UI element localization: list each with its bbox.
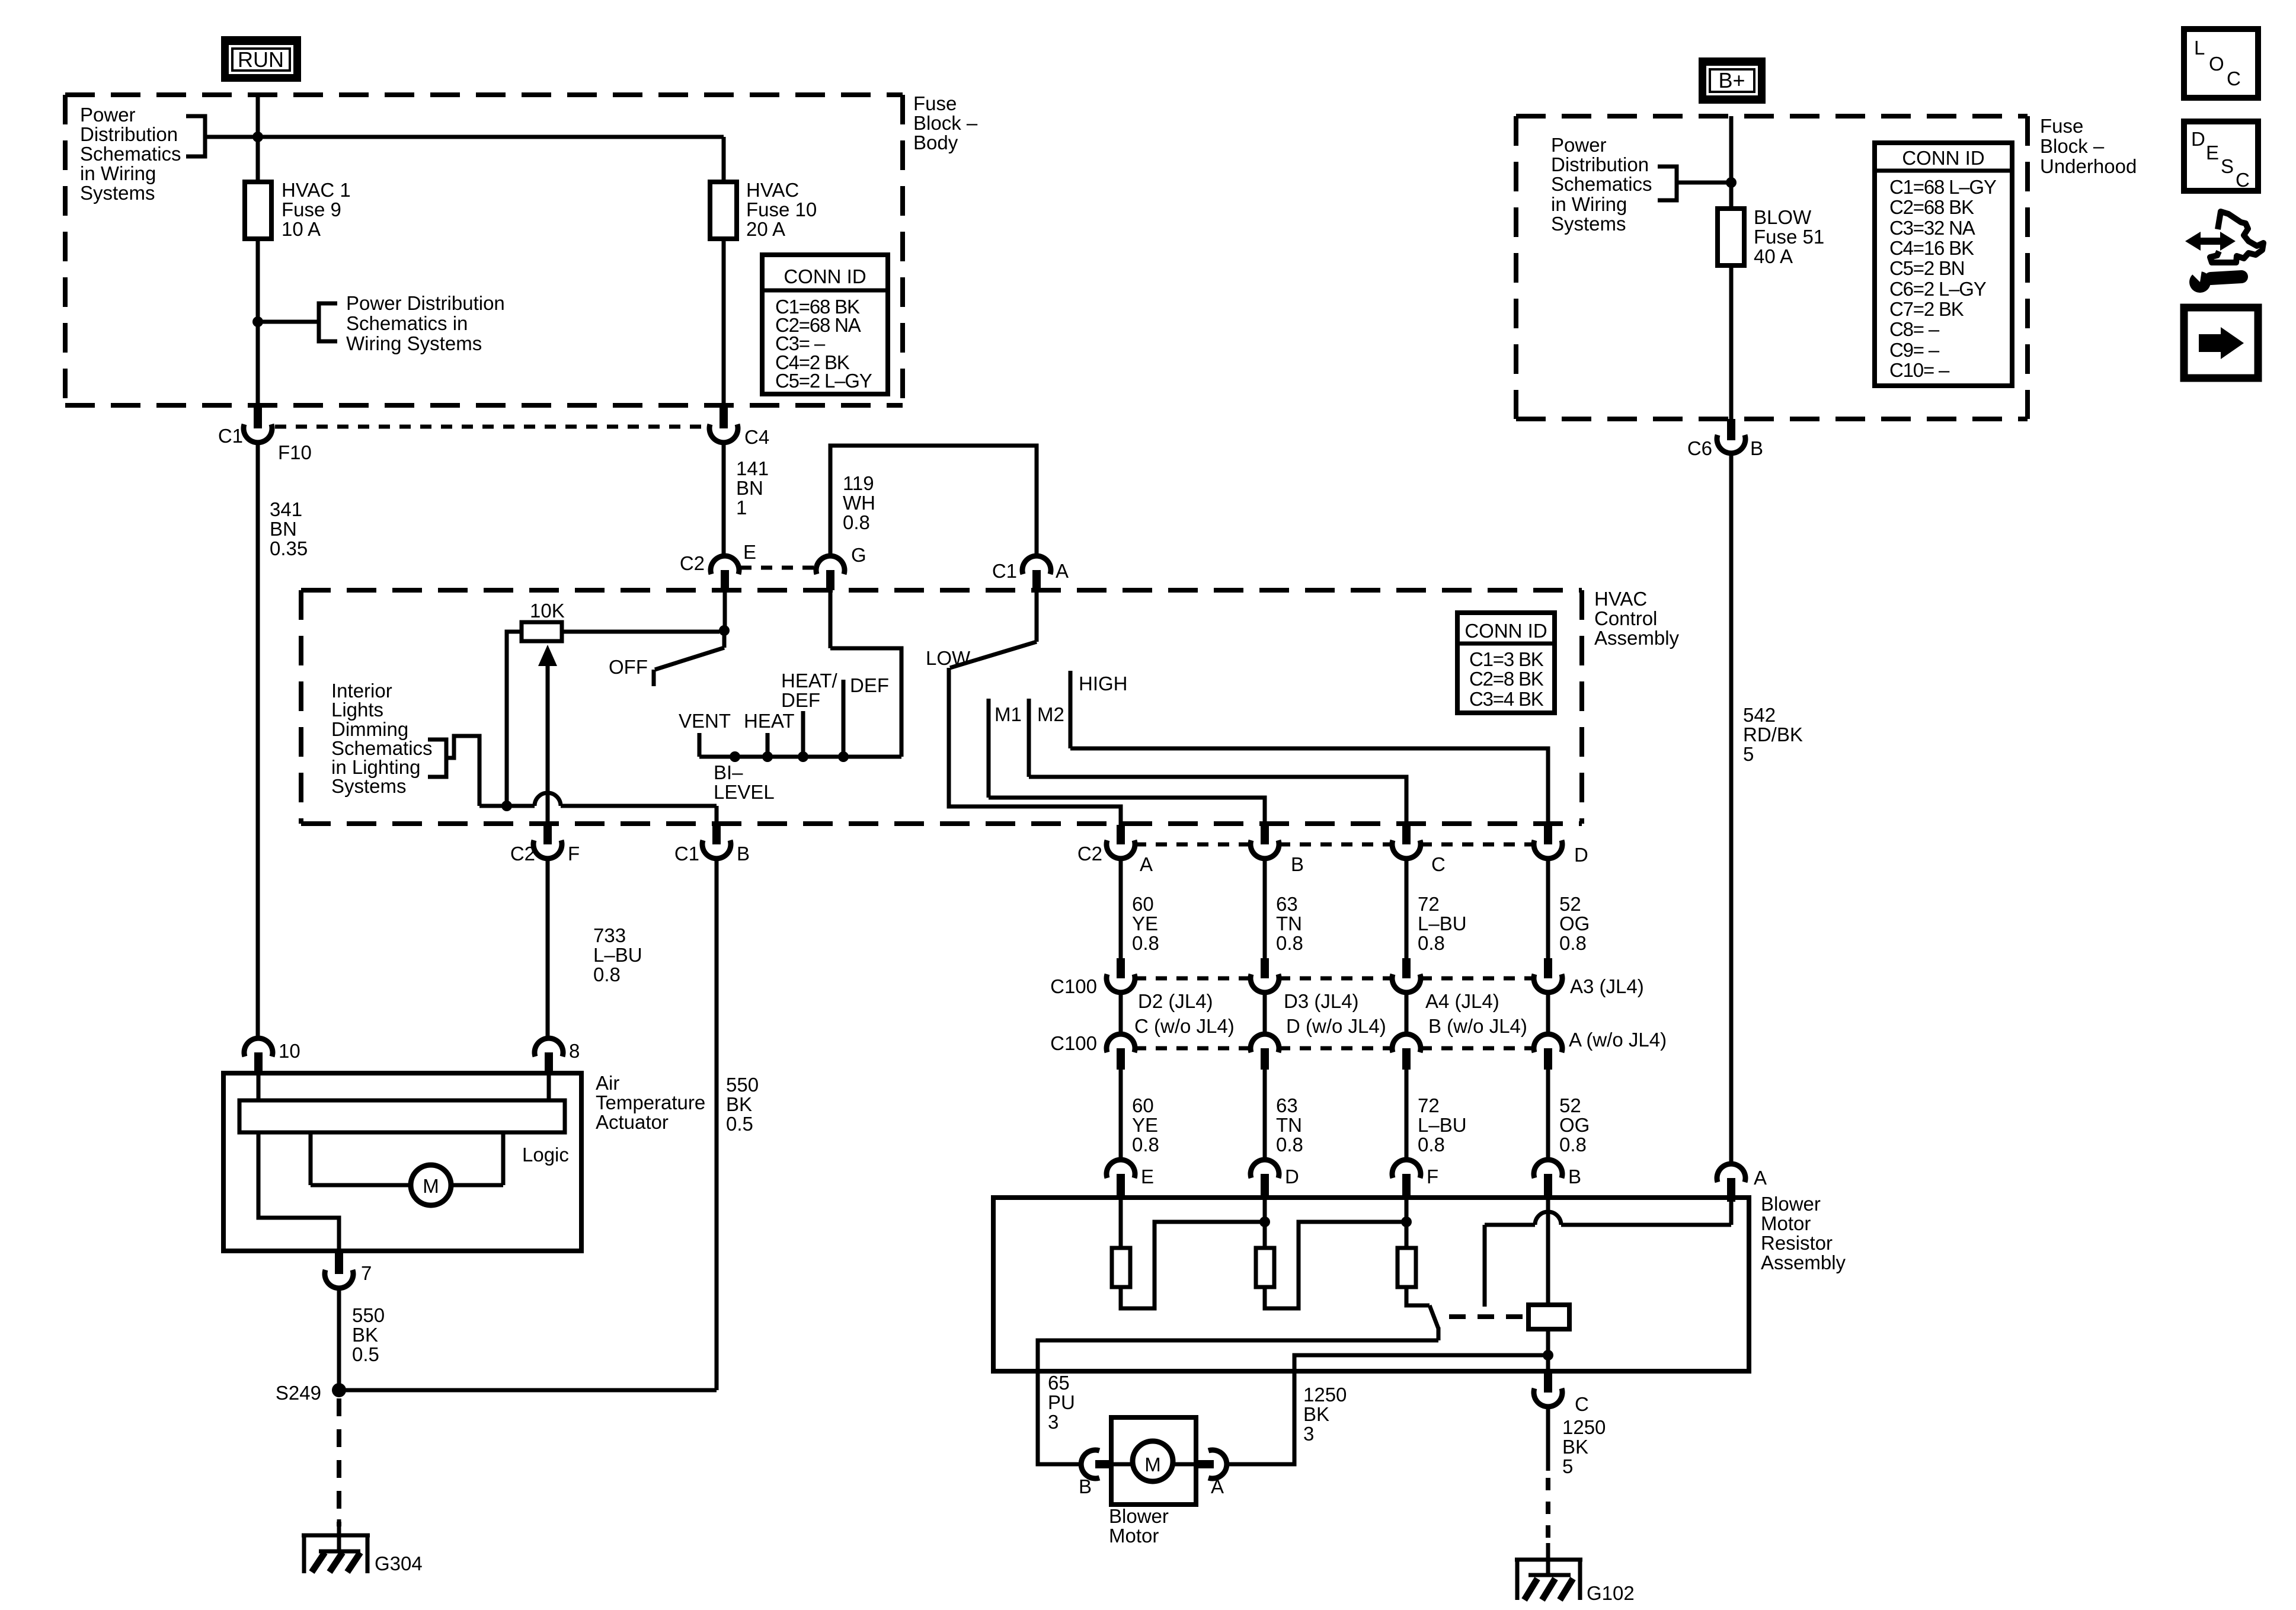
wire motor loop left — [311, 1183, 411, 1188]
svg-text:BK: BK — [1303, 1403, 1329, 1425]
Fuse Block - Underhood dashed box — [1516, 116, 2028, 419]
wire M2 stub — [1027, 699, 1031, 777]
reference bracket lower — [319, 303, 337, 341]
svg-text:Temperature: Temperature — [596, 1092, 705, 1113]
connector C100 upper B arc — [1251, 974, 1279, 993]
svg-text:BK: BK — [1562, 1436, 1588, 1458]
connector C2 C arc — [1392, 840, 1421, 859]
connector C pin (resistor ground) — [1544, 1371, 1552, 1393]
node DEF dot — [838, 751, 849, 762]
connector blower resistor D pin — [1261, 1174, 1269, 1200]
svg-text:Systems: Systems — [1551, 213, 1626, 235]
relay switch blade — [1430, 1305, 1438, 1329]
svg-text:0.8: 0.8 — [1132, 1134, 1159, 1156]
Fuse Block - Underhood label — [2040, 115, 2137, 177]
Fuse Block - Body label — [913, 92, 978, 153]
svg-text:C10= –: C10= – — [1889, 359, 1950, 381]
wire ground node to C pin — [1546, 1355, 1550, 1371]
wire F col into resistor 3 — [1405, 1198, 1409, 1248]
svg-text:A3 (JL4): A3 (JL4) — [1570, 975, 1644, 997]
wire coil to ground node — [1546, 1329, 1550, 1355]
svg-text:Block –: Block – — [2040, 135, 2105, 157]
svg-text:BI–: BI– — [714, 761, 743, 783]
connector blower resistor D arc — [1251, 1160, 1279, 1178]
connector blower resistor E arc — [1107, 1160, 1135, 1178]
wire R3 bottom — [1406, 1287, 1430, 1305]
svg-text:0.8: 0.8 — [1418, 932, 1445, 954]
label fuse 9 — [282, 179, 351, 240]
svg-text:52: 52 — [1559, 1094, 1581, 1116]
wire ground run to motor return — [1294, 1355, 1548, 1371]
connector blower resistor B pin — [1544, 1174, 1552, 1200]
svg-text:C6=2 L–GY: C6=2 L–GY — [1889, 278, 1987, 300]
label 550 BK 0.5 (left) — [352, 1304, 385, 1365]
wire 119 WH loop G to A — [830, 446, 1037, 556]
svg-text:F: F — [1427, 1166, 1438, 1188]
svg-text:65: 65 — [1048, 1372, 1070, 1394]
ignition switch RUN feed box — [221, 36, 301, 82]
switch pole OFF stub — [652, 670, 656, 686]
label Air Temperature Actuator — [596, 1072, 705, 1133]
svg-text:G: G — [851, 544, 866, 566]
svg-text:Motor: Motor — [1109, 1525, 1159, 1547]
connector C2 E pin — [721, 570, 729, 590]
label circuit 63 TN lower — [1276, 1094, 1303, 1156]
svg-text:M1: M1 — [994, 703, 1022, 725]
svg-text:C2: C2 — [510, 843, 535, 865]
label 65 PU 3 — [1048, 1372, 1075, 1433]
svg-text:C8= –: C8= – — [1889, 318, 1940, 340]
svg-text:BK: BK — [726, 1093, 752, 1115]
wire 141 BN — [722, 443, 726, 556]
actuator feedback track — [239, 1100, 565, 1132]
relay linkage dashed — [1449, 1314, 1527, 1319]
svg-text:Power: Power — [80, 104, 136, 126]
wire lower segment col C — [1405, 1070, 1409, 1160]
wire 52 upper segment col B — [1263, 859, 1267, 960]
svg-text:WH: WH — [843, 492, 875, 514]
wire fuse 51 to C6 — [1729, 265, 1734, 419]
svg-text:5: 5 — [1743, 743, 1754, 765]
wire R2 bottom loop — [1265, 1222, 1406, 1308]
connector G arc — [816, 556, 845, 574]
connector C100 upper B pin — [1261, 958, 1269, 978]
reference bracket left — [186, 116, 205, 156]
svg-text:0.8: 0.8 — [1418, 1134, 1445, 1156]
svg-text:C1=68 L–GY: C1=68 L–GY — [1889, 176, 1997, 198]
connector C2 F arc — [533, 840, 562, 859]
CONN ID table body — [762, 255, 888, 394]
connector C100 lower B pin — [1261, 1048, 1269, 1070]
label circuit 72 L–BU lower — [1418, 1094, 1467, 1156]
connector C2 C pin — [1402, 825, 1411, 844]
svg-text:D: D — [2191, 128, 2205, 150]
wire C1 B down from HVAC box — [715, 806, 719, 825]
connector blower resistor F pin — [1402, 1174, 1411, 1200]
wire 52 upper segment col A — [1119, 859, 1123, 960]
wire hop over wiper wire — [535, 793, 561, 806]
svg-text:B: B — [1079, 1475, 1092, 1497]
connector C2 A pin — [1117, 825, 1125, 844]
svg-text:Power Distribution: Power Distribution — [346, 292, 505, 314]
svg-text:10 A: 10 A — [282, 218, 321, 240]
wire HIGH run — [1070, 748, 1548, 825]
wire battery feed to relay contact right part — [1561, 1223, 1731, 1227]
svg-text:D2 (JL4): D2 (JL4) — [1138, 990, 1213, 1012]
connector actuator pin 10 pin — [254, 1052, 263, 1075]
connector C100 lower B arc — [1251, 1034, 1279, 1052]
svg-text:0.5: 0.5 — [726, 1113, 753, 1135]
svg-text:HEAT/: HEAT/ — [781, 670, 838, 692]
label 119 WH 0.8 — [843, 472, 875, 533]
wire 550 BK right — [715, 859, 719, 1390]
wire motor internal right — [1173, 1462, 1196, 1467]
svg-text:550: 550 — [352, 1304, 385, 1326]
connector C1 F10 arc — [244, 424, 272, 443]
relay coil — [1528, 1305, 1569, 1329]
svg-text:A: A — [1056, 560, 1069, 582]
label circuit 52 OG — [1559, 893, 1590, 954]
svg-text:in Wiring: in Wiring — [1551, 193, 1627, 215]
svg-text:CONN ID: CONN ID — [784, 265, 866, 287]
svg-text:BK: BK — [352, 1324, 378, 1346]
svg-text:Distribution: Distribution — [1551, 153, 1649, 175]
label 542 RD/BK 5 — [1743, 704, 1803, 765]
connector C4 pin — [720, 405, 728, 428]
svg-text:60: 60 — [1132, 893, 1154, 915]
svg-text:A: A — [1211, 1475, 1224, 1497]
connector blower resistor A arc — [1717, 1164, 1745, 1182]
reference bracket right — [1658, 167, 1677, 200]
CONN ID table underhood — [1875, 143, 2012, 386]
svg-text:LOW: LOW — [926, 647, 971, 669]
wire E below dot — [722, 630, 727, 648]
connector C6 B arc — [1717, 435, 1745, 453]
connector blower motor A arc — [1208, 1450, 1227, 1478]
connector C arc — [1534, 1388, 1562, 1407]
connector C1 A pin — [1032, 570, 1041, 590]
wire lower segment col A — [1119, 1070, 1123, 1160]
node BI-LEVEL dot — [730, 751, 740, 762]
connector blower motor B pin — [1095, 1460, 1113, 1468]
svg-text:L–BU: L–BU — [593, 944, 642, 966]
svg-text:C7=2 BK: C7=2 BK — [1889, 298, 1964, 320]
wire resistor to E junction — [562, 630, 720, 634]
node HEAT/DEF dot — [798, 751, 808, 762]
connector C100 upper D pin — [1544, 958, 1552, 978]
wire E col into resistor 1 — [1119, 1198, 1123, 1248]
label 733 L-BU 0.8 — [593, 924, 642, 985]
svg-text:C2: C2 — [680, 552, 705, 574]
node coil ground dot — [1543, 1350, 1553, 1361]
svg-text:Wiring Systems: Wiring Systems — [346, 332, 482, 354]
connector C4 arc — [709, 424, 738, 443]
svg-text:B: B — [737, 843, 750, 865]
svg-text:C4=16 BK: C4=16 BK — [1889, 237, 1974, 259]
relay switch pole — [1437, 1327, 1441, 1340]
svg-text:YE: YE — [1132, 913, 1158, 934]
svg-text:C5=2 BN: C5=2 BN — [1889, 257, 1964, 279]
connector C1 B pin — [712, 825, 721, 844]
svg-text:141: 141 — [736, 457, 769, 479]
svg-text:RD/BK: RD/BK — [1743, 724, 1803, 745]
svg-text:in Wiring: in Wiring — [80, 162, 156, 184]
label circuit 60 YE lower — [1132, 1094, 1159, 1156]
svg-text:3: 3 — [1048, 1411, 1059, 1433]
connector blower resistor B arc — [1534, 1160, 1562, 1178]
connector blower motor B arc — [1081, 1450, 1099, 1478]
svg-text:BN: BN — [736, 477, 763, 499]
svg-text:A: A — [1754, 1167, 1767, 1189]
svg-text:Logic: Logic — [522, 1144, 569, 1166]
wire B col into relay coil — [1546, 1200, 1550, 1305]
label Interior Lights Dimming Schematics in Lighting Systems — [331, 680, 433, 797]
svg-text:5: 5 — [1562, 1455, 1573, 1477]
wire A pin battery feed into box — [1729, 1202, 1734, 1225]
svg-text:G304: G304 — [375, 1553, 423, 1574]
svg-text:Fuse 51: Fuse 51 — [1754, 226, 1824, 248]
svg-text:C100: C100 — [1050, 975, 1097, 997]
label Blower Motor — [1109, 1505, 1169, 1547]
svg-text:C3=4 BK: C3=4 BK — [1469, 688, 1544, 710]
svg-text:550: 550 — [726, 1074, 759, 1096]
connector C1 A arc — [1022, 556, 1051, 574]
svg-text:733: 733 — [593, 924, 626, 946]
svg-text:F10: F10 — [278, 441, 312, 463]
svg-text:OG: OG — [1559, 1114, 1590, 1136]
svg-text:Motor: Motor — [1761, 1212, 1811, 1234]
wire A into blower switch — [1035, 590, 1039, 642]
svg-text:Blower: Blower — [1761, 1193, 1821, 1215]
label circuit 52 OG lower — [1559, 1094, 1590, 1156]
connector C1 F10 pin — [254, 405, 262, 428]
wire 1250 BK 5 solid part — [1546, 1407, 1550, 1471]
svg-text:E: E — [2206, 142, 2219, 164]
wire D col into resistor 2 — [1263, 1198, 1267, 1248]
node R1 to D col dot — [1259, 1217, 1270, 1227]
svg-text:YE: YE — [1132, 1114, 1158, 1136]
wire S249 to 550 BK right — [339, 1388, 717, 1393]
svg-text:20 A: 20 A — [746, 218, 785, 240]
svg-text:D: D — [1285, 1166, 1299, 1188]
mode stub HEAT/DEF — [801, 711, 805, 757]
svg-text:0.5: 0.5 — [352, 1343, 379, 1365]
node R2 to F col dot — [1401, 1217, 1412, 1227]
svg-text:0.8: 0.8 — [593, 964, 621, 985]
svg-text:C3=32 NA: C3=32 NA — [1889, 217, 1975, 239]
wire 733 L-BU — [546, 859, 550, 1039]
wire M1 stub — [987, 699, 991, 798]
switch blade LOW — [950, 642, 1037, 668]
svg-text:C100: C100 — [1050, 1032, 1097, 1054]
svg-text:Blower: Blower — [1109, 1505, 1169, 1527]
fuse F9 HVAC 1 — [245, 182, 271, 239]
svg-text:OG: OG — [1559, 913, 1590, 934]
relay fixed contact — [1483, 1225, 1487, 1307]
connector C2 B arc — [1251, 840, 1279, 859]
wire 542 RD/BK — [1729, 453, 1734, 1163]
resistor R3 — [1398, 1248, 1416, 1287]
mode switch bus — [699, 755, 901, 759]
wire E into switch — [723, 590, 727, 627]
connector face dotted C2 row — [1135, 843, 1251, 847]
svg-text:Block –: Block – — [913, 112, 978, 134]
label 550 BK 0.5 (right) — [726, 1074, 759, 1135]
svg-text:L–BU: L–BU — [1418, 1114, 1467, 1136]
connector C2 F pin — [543, 825, 552, 844]
svg-text:341: 341 — [270, 498, 302, 520]
label fuse 51 — [1754, 206, 1824, 267]
CONN ID table HVAC — [1457, 613, 1555, 713]
svg-text:C1: C1 — [218, 425, 243, 447]
svg-text:Schematics: Schematics — [80, 143, 181, 165]
svg-text:HVAC: HVAC — [1594, 588, 1647, 610]
logic block right lead — [501, 1132, 506, 1185]
connector actuator pin 10 arc — [244, 1038, 273, 1057]
svg-text:LEVEL: LEVEL — [714, 781, 775, 803]
svg-text:C1: C1 — [992, 560, 1017, 582]
wire between C100 halves col C — [1405, 993, 1409, 1035]
svg-text:3: 3 — [1303, 1423, 1314, 1445]
connector blower resistor E pin — [1117, 1174, 1125, 1200]
svg-text:0.35: 0.35 — [270, 537, 308, 559]
node junction on B+ feed — [1726, 177, 1737, 188]
svg-text:10K: 10K — [530, 600, 565, 622]
connector C100 upper D arc — [1534, 974, 1562, 993]
svg-text:Lights: Lights — [331, 699, 383, 721]
svg-text:M2: M2 — [1037, 703, 1064, 725]
svg-text:Fuse: Fuse — [2040, 115, 2083, 137]
node HEAT dot — [762, 751, 773, 762]
wire battery feed left part — [1485, 1223, 1535, 1227]
svg-text:8: 8 — [569, 1040, 580, 1062]
connector actuator pin 7 pin — [335, 1251, 343, 1274]
svg-text:Schematics: Schematics — [1551, 173, 1652, 195]
wire junction to bracket — [258, 320, 319, 324]
svg-text:Schematics in: Schematics in — [346, 312, 468, 334]
label HEAT/DEF — [781, 670, 838, 711]
connector C2 A arc — [1107, 840, 1135, 859]
wire M2 run — [1029, 777, 1406, 825]
svg-text:D: D — [1574, 844, 1588, 866]
potentiometer wiper arrow stem — [546, 662, 550, 823]
svg-text:Air: Air — [596, 1072, 619, 1094]
wire 550 BK left — [337, 1288, 341, 1390]
svg-text:B+: B+ — [1718, 68, 1745, 92]
svg-text:Assembly: Assembly — [1761, 1251, 1846, 1273]
svg-text:OFF: OFF — [609, 656, 648, 678]
wire pin10 inside — [257, 1075, 261, 1100]
connector C2 B pin — [1261, 825, 1269, 844]
logic block left lead — [309, 1132, 313, 1185]
svg-text:0.8: 0.8 — [1559, 932, 1587, 954]
svg-text:C5=2 L–GY: C5=2 L–GY — [775, 370, 872, 392]
svg-text:Power: Power — [1551, 134, 1607, 156]
wire lower segment col D — [1546, 1070, 1550, 1160]
node E junction dot — [719, 625, 730, 636]
svg-text:7: 7 — [361, 1262, 372, 1284]
svg-text:10: 10 — [279, 1040, 300, 1062]
switch blade OFF — [655, 648, 724, 670]
connector C2 D pin — [1544, 825, 1552, 844]
resistor R2 — [1256, 1248, 1274, 1287]
svg-text:72: 72 — [1418, 1094, 1440, 1116]
svg-text:72: 72 — [1418, 893, 1440, 915]
label BI-LEVEL — [714, 761, 775, 803]
connector actuator pin 8 pin — [545, 1052, 553, 1075]
label circuit 63 TN — [1276, 893, 1303, 954]
svg-text:B: B — [1291, 853, 1304, 875]
node dimmer junction — [501, 801, 512, 811]
svg-text:A (w/o JL4): A (w/o JL4) — [1569, 1029, 1667, 1051]
svg-text:CONN ID: CONN ID — [1464, 620, 1547, 642]
wire HIGH stub — [1069, 671, 1073, 748]
svg-text:TN: TN — [1276, 1114, 1302, 1136]
wire top horizontal to HVAC Fuse 10 — [258, 135, 724, 139]
wire G down — [829, 590, 833, 648]
blower motor circle M — [1133, 1441, 1173, 1481]
svg-text:HVAC: HVAC — [746, 179, 799, 201]
icon vehicle outline — [2210, 212, 2263, 263]
ground G102 symbol — [1515, 1543, 1582, 1600]
wire motor loop right — [451, 1183, 503, 1188]
label Power Distribution Schematics in Wiring Systems (inner) — [346, 292, 505, 354]
svg-text:A: A — [1140, 853, 1153, 875]
connector actuator pin 8 arc — [535, 1038, 563, 1057]
wire lower segment col B — [1263, 1070, 1267, 1160]
connector face dotted C100 lower — [1135, 1046, 1251, 1051]
connector C100 lower D arc — [1534, 1034, 1562, 1052]
connector C100 lower A arc — [1107, 1034, 1135, 1052]
connector blower resistor F arc — [1392, 1160, 1421, 1178]
svg-text:G102: G102 — [1587, 1582, 1635, 1604]
connector G pin — [826, 570, 834, 590]
svg-text:C: C — [1431, 853, 1446, 875]
svg-text:HEAT: HEAT — [744, 710, 795, 732]
wire motor feed 65 PU inside box — [1038, 1340, 1438, 1371]
HVAC Control Assembly dashed box — [301, 590, 1582, 824]
svg-text:S249: S249 — [276, 1382, 321, 1404]
svg-text:63: 63 — [1276, 1094, 1298, 1116]
svg-text:DEF: DEF — [781, 689, 820, 711]
svg-text:E: E — [743, 541, 756, 563]
connector actuator pin 7 arc — [325, 1270, 353, 1288]
svg-text:C1: C1 — [674, 843, 699, 865]
label 141 BN 1 — [736, 457, 769, 518]
fuse F10 HVAC — [710, 182, 737, 239]
mode stub HEAT — [766, 733, 770, 757]
connector C100 lower A pin — [1117, 1048, 1125, 1070]
wire track to output — [258, 1132, 339, 1251]
wire dashed to G102 — [1546, 1478, 1550, 1548]
wire hop over B col — [1535, 1212, 1561, 1225]
wire RUN feed vertical — [256, 95, 260, 408]
svg-text:L–BU: L–BU — [1418, 913, 1467, 934]
svg-text:RUN: RUN — [238, 47, 284, 72]
svg-text:40 A: 40 A — [1754, 245, 1793, 267]
svg-text:TN: TN — [1276, 913, 1302, 934]
svg-text:Fuse 10: Fuse 10 — [746, 199, 817, 220]
wire LOW pole — [949, 668, 1121, 825]
connector C100 lower C pin — [1402, 1048, 1411, 1070]
node splice S249 — [332, 1383, 346, 1397]
node junction lower on RUN feed — [252, 316, 263, 327]
svg-text:D3 (JL4): D3 (JL4) — [1284, 990, 1359, 1012]
svg-text:O: O — [2209, 53, 2224, 75]
Fuse Block - Body dashed box — [65, 95, 903, 405]
resistor R1 — [1112, 1248, 1130, 1287]
svg-text:M: M — [423, 1175, 439, 1197]
